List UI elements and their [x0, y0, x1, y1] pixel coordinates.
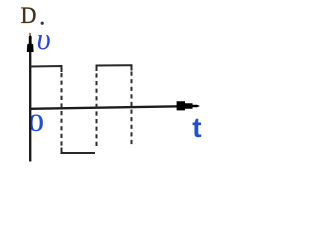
wave: first high segment: [30, 66, 61, 72]
svg-text:D: D: [21, 2, 37, 28]
period after D: [41, 22, 44, 25]
wave: second high segment: [97, 65, 132, 71]
wave: dashed vertical 1: [61, 73, 63, 152]
label D.: [21, 2, 37, 28]
vertical axis arrowhead: [27, 35, 34, 52]
wave: dashed vertical 2: [96, 66, 98, 149]
artifact dot: [29, 33, 31, 35]
origin label O: [28, 109, 43, 137]
vertical axis: [29, 40, 31, 162]
svg-text:υ: υ: [37, 21, 51, 56]
horizontal axis: [29, 106, 180, 109]
wave: low segment: [62, 148, 96, 154]
horizontal axis arrowhead: [177, 101, 200, 110]
wave: dashed vertical 3: [131, 72, 133, 148]
svg-text:t: t: [192, 112, 201, 143]
